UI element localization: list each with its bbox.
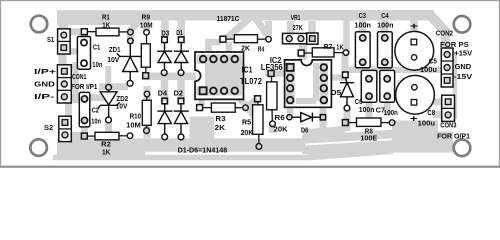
label GND left	[34, 80, 55, 89]
svg-text:CON2: CON2	[436, 30, 453, 37]
label D4	[158, 90, 167, 97]
svg-text:20K: 20K	[241, 130, 254, 137]
mounting hole top-left	[31, 16, 48, 33]
svg-text:C6: C6	[355, 99, 363, 106]
label D5	[331, 90, 342, 97]
label C4 100n	[377, 13, 393, 30]
svg-text:CON3: CON3	[440, 123, 456, 130]
wire R1 right to rail diagonal	[130, 18, 142, 31]
diode D4	[157, 98, 172, 140]
label S2	[44, 125, 53, 132]
wire right edge vertical	[453, 52, 458, 119]
svg-text:IC1: IC1	[242, 65, 253, 75]
svg-text:FOR O/P1: FOR O/P1	[437, 134, 470, 141]
svg-text:10M: 10M	[126, 123, 141, 130]
capacitor C6	[361, 70, 377, 102]
svg-text:R8: R8	[365, 128, 373, 135]
svg-text:D5: D5	[331, 90, 342, 97]
svg-text:100n: 100n	[355, 22, 371, 29]
label 2K R4	[241, 46, 264, 54]
svg-text:100n: 100n	[384, 110, 398, 117]
svg-text:C4: C4	[381, 13, 388, 20]
wire GND I/P- net left	[67, 66, 128, 98]
wire CON1 right column	[73, 62, 79, 103]
wire VR1 wiper to IC2	[299, 44, 307, 60]
wire IC2 left to R6	[265, 70, 288, 77]
svg-text:ZD1: ZD1	[109, 47, 121, 54]
label +15V	[454, 51, 472, 58]
svg-text:2K: 2K	[215, 125, 226, 132]
wire IC1 to R3 right R5	[235, 94, 258, 117]
wire IC1 pin1 to R3	[190, 94, 215, 141]
label IC1 TL072	[240, 65, 262, 87]
wire bottom ground band	[53, 121, 453, 161]
mounting hole bottom-right	[454, 140, 471, 157]
svg-text:100n: 100n	[377, 22, 393, 29]
svg-text:2K: 2K	[241, 46, 250, 53]
svg-text:VR1: VR1	[291, 15, 301, 22]
wire C2 ZD2 R10 drops to band	[85, 122, 109, 139]
label R2 1K	[101, 141, 111, 156]
op-amp IC1 TL072	[195, 52, 244, 99]
wire CON1 pin1 to C1 bottom	[66, 64, 84, 71]
label FOR O/P1	[437, 134, 470, 141]
wire S2 to R2	[71, 132, 84, 139]
wire trace under IC2	[0, 0, 1, 1]
connector CON3	[442, 95, 455, 121]
wire rail to R7 right	[343, 20, 350, 52]
connector CON1	[57, 65, 71, 103]
svg-text:FOR PS: FOR PS	[440, 42, 469, 49]
label ZD1 10V	[107, 47, 120, 64]
connector S2	[59, 116, 72, 141]
svg-text:10n: 10n	[92, 62, 102, 69]
VR1 wiper pad and lead to R7	[298, 50, 312, 56]
label S1	[47, 37, 54, 44]
wire C3 C4 tops to rail	[363, 20, 385, 32]
label C1 10n	[92, 44, 102, 69]
wire traces under IC1	[243, 67, 246, 74]
svg-text:100E: 100E	[360, 136, 377, 143]
svg-text:11871C: 11871C	[217, 14, 240, 23]
svg-text:I/P-: I/P-	[34, 92, 55, 101]
wire R6 pad down to strip	[269, 124, 275, 133]
svg-text:R9: R9	[142, 14, 151, 21]
label R9 10M	[140, 14, 153, 29]
svg-text:C1: C1	[93, 44, 100, 51]
wire S1 bottom to CON1	[63, 50, 83, 66]
svg-text:100n: 100n	[359, 107, 375, 114]
svg-text:1K: 1K	[336, 44, 343, 51]
wire C8 to CON3 links	[432, 102, 442, 115]
label FOR I/P1	[71, 84, 97, 91]
border frame	[0, 1, 500, 167]
svg-text:CON1: CON1	[72, 74, 86, 81]
svg-text:10M: 10M	[140, 23, 153, 30]
wire bottom fan diagonals	[302, 129, 393, 157]
svg-text:10V: 10V	[107, 57, 120, 64]
wire D3 top to rail	[161, 20, 169, 38]
capacitor C7	[380, 70, 395, 102]
label R3 2K	[215, 116, 226, 132]
label 11871C board code	[217, 14, 240, 23]
svg-text:TL072: TL072	[240, 76, 262, 86]
wire VR1 pads to rail	[291, 21, 313, 34]
svg-text:S1: S1	[47, 37, 54, 44]
label R6 20K	[274, 115, 288, 133]
label VR1 27K	[291, 15, 303, 32]
svg-text:D2: D2	[174, 90, 183, 97]
label GND right	[455, 64, 472, 71]
wire R10 top link	[144, 86, 151, 138]
wire C5 plus to rail	[410, 20, 418, 34]
svg-text:D6: D6	[301, 128, 308, 135]
wire rail fork to R4	[227, 16, 268, 38]
resistor R7	[312, 48, 349, 57]
resistor R10	[142, 91, 151, 133]
label I/P-	[34, 92, 55, 101]
svg-text:R2: R2	[101, 141, 111, 148]
svg-text:C2: C2	[92, 108, 99, 115]
wire top supply rail band	[57, 15, 446, 50]
svg-text:10n: 10n	[91, 118, 101, 125]
capacitor C1	[77, 37, 90, 70]
svg-text:GND: GND	[455, 64, 472, 71]
svg-text:+: +	[410, 114, 418, 124]
resistor R3	[197, 103, 249, 112]
wire D1 top to rail	[178, 20, 186, 38]
label C2 10n	[91, 108, 101, 126]
mounting hole top-right	[454, 16, 471, 33]
svg-text:100u: 100u	[420, 67, 437, 74]
resistor R8	[342, 118, 395, 126]
svg-text:R7: R7	[324, 44, 333, 51]
svg-text:1K: 1K	[102, 22, 110, 29]
label D2	[174, 90, 183, 97]
svg-text:+: +	[410, 21, 418, 31]
svg-text:D1-D6=1N4148: D1-D6=1N4148	[178, 145, 228, 154]
wire R4 right to rail	[265, 21, 272, 36]
label IC2 LF356	[261, 55, 283, 72]
label C8 plus 100u	[427, 110, 435, 117]
wire R7 right down to D5	[342, 53, 349, 74]
label D3	[161, 30, 169, 37]
label D1	[176, 30, 183, 37]
svg-text:R3: R3	[215, 116, 225, 123]
diode D5	[340, 72, 354, 111]
svg-text:R4: R4	[258, 46, 264, 53]
wire gnd strip caps row	[349, 64, 455, 118]
label R8 100E	[360, 128, 377, 142]
svg-text:+15V: +15V	[454, 51, 472, 58]
resistor R4	[220, 35, 271, 43]
diode D6	[287, 113, 326, 122]
svg-text:FOR I/P1: FOR I/P1	[71, 84, 97, 91]
label C5 plus sign	[410, 21, 418, 31]
svg-text:R1: R1	[102, 14, 110, 21]
wire S1 to rail drop	[59, 20, 68, 30]
diode D1	[174, 37, 189, 76]
label CON1	[72, 74, 86, 81]
label D6	[301, 128, 308, 135]
zener ZD2	[98, 84, 120, 122]
capacitor C4	[378, 32, 393, 68]
svg-text:C5: C5	[429, 58, 437, 65]
svg-text:100u: 100u	[418, 120, 435, 127]
svg-text:S2: S2	[44, 125, 53, 132]
wire S1 to R1	[69, 28, 84, 35]
zener ZD1	[117, 38, 143, 86]
label C6 100n	[355, 99, 375, 114]
connector CON2	[441, 48, 453, 87]
wire ZD1 pads column	[127, 29, 134, 44]
label CON2	[436, 30, 453, 37]
label R5 20K	[241, 119, 254, 137]
capacitor C5 electrolytic	[395, 31, 434, 70]
svg-text:1K: 1K	[102, 150, 110, 157]
svg-text:R5: R5	[242, 119, 251, 126]
svg-text:C8: C8	[427, 110, 435, 117]
wire R4 left to IC1	[209, 42, 230, 53]
label FOR PS	[440, 42, 469, 49]
label ZD2 10V	[116, 96, 128, 110]
wire D6 down to band	[320, 104, 327, 131]
wire IC2 to D5	[326, 74, 347, 81]
svg-text:LF356: LF356	[261, 62, 283, 72]
wire R9 bottom D3 D1 bottoms bus	[142, 76, 196, 101]
label CON3	[440, 123, 456, 130]
wire R1 to C1	[81, 32, 88, 42]
svg-text:ZD2: ZD2	[116, 96, 128, 103]
svg-text:D4: D4	[158, 90, 167, 97]
capacitor C8 electrolytic	[396, 75, 435, 114]
label I/P+	[34, 67, 57, 76]
wire CON1 to S2	[65, 100, 72, 136]
diode D3	[157, 37, 172, 76]
connector S1	[58, 29, 71, 54]
svg-text:-15V: -15V	[454, 74, 473, 81]
wire IC2 to D6	[287, 103, 294, 118]
svg-text:27K: 27K	[293, 25, 303, 32]
wire R9 top to rail	[143, 19, 151, 31]
svg-text:GND: GND	[34, 80, 55, 89]
resistor R9	[141, 30, 150, 79]
capacitor C3	[355, 32, 370, 68]
svg-text:D3: D3	[161, 30, 169, 37]
svg-text:10V: 10V	[116, 103, 128, 110]
wire D5 down to band	[344, 110, 351, 131]
resistor R6	[267, 71, 277, 127]
svg-text:R10: R10	[130, 114, 141, 121]
preset VR1	[283, 33, 319, 44]
label C7 100n	[376, 108, 398, 117]
resistor R1	[81, 28, 133, 36]
diode D2	[174, 98, 189, 140]
svg-text:I/P+: I/P+	[34, 67, 57, 76]
label D1-D6=1N4148	[178, 145, 228, 154]
label C5 100u	[420, 58, 437, 74]
resistor R5	[253, 96, 263, 150]
svg-text:R6: R6	[274, 115, 285, 122]
svg-text:20K: 20K	[274, 127, 288, 134]
label R1 1K	[102, 14, 110, 29]
resistor R2	[81, 132, 132, 140]
svg-text:C3: C3	[359, 13, 366, 20]
label R10 10M	[126, 114, 141, 130]
label R7 1K	[324, 44, 344, 51]
label C3 100n	[355, 13, 371, 30]
op-amp IC2 LF356	[285, 60, 332, 107]
label -15V	[454, 74, 473, 81]
capacitor C2	[79, 92, 90, 127]
mounting hole bottom-left	[30, 139, 47, 156]
svg-text:D1: D1	[176, 30, 183, 37]
